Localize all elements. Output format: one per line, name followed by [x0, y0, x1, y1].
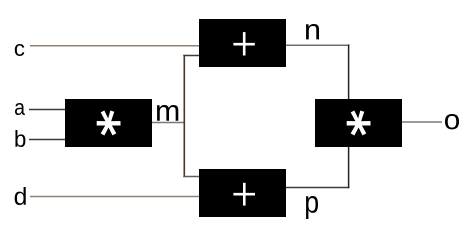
label m [157, 105, 178, 121]
plus glyph U2 [233, 32, 254, 55]
wire m from multiplier [151, 122, 184, 124]
wire b input [29, 139, 66, 141]
wire m branch vertical [183, 55, 185, 177]
adder box U2 top (c+m=n) [199, 19, 286, 67]
label o [445, 114, 459, 129]
asterisk glyph U4 [347, 110, 371, 135]
wire n horizontal [285, 44, 349, 46]
multiplier box U4 right (n*p=o) [315, 99, 402, 147]
adder box U3 bottom (m+d=p) [199, 169, 286, 217]
label a [15, 103, 25, 115]
label b [15, 130, 25, 147]
label n [306, 24, 319, 39]
wire n vertical [348, 44, 350, 100]
wire o output [402, 121, 442, 123]
multiplier box U1 (a*b=m) [65, 99, 152, 147]
plus glyph U3 [233, 183, 255, 206]
wire p horizontal [285, 187, 349, 189]
label p [306, 196, 318, 219]
asterisk glyph U1 [97, 110, 121, 135]
wire c input [30, 45, 200, 47]
label c [15, 44, 25, 56]
wire m branch to bottom adder [183, 176, 200, 178]
wire p vertical [348, 146, 350, 188]
wire m branch to top adder [183, 55, 200, 57]
label d [15, 187, 26, 205]
wire d input [30, 196, 200, 198]
wire a input [29, 109, 66, 111]
